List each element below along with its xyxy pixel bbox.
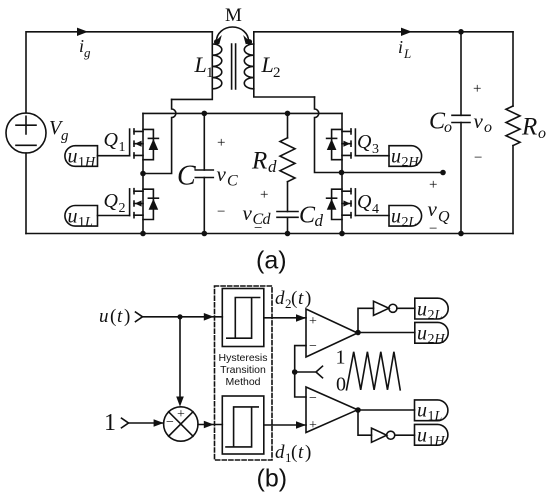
- plus sign vo: [473, 81, 481, 97]
- label Q2: [104, 190, 126, 216]
- svg-text:R: R: [251, 148, 267, 175]
- svg-text:3: 3: [372, 142, 379, 157]
- svg-text:d: d: [263, 211, 272, 228]
- wire comparator 2 output to u1L tag: [358, 409, 415, 411]
- arrow into dashed box bottom: [204, 421, 214, 429]
- svg-text:2: 2: [402, 155, 409, 170]
- svg-text:2: 2: [428, 332, 435, 347]
- label iL: [398, 37, 411, 61]
- svg-text:o: o: [538, 125, 546, 142]
- svg-text:1: 1: [78, 155, 85, 170]
- svg-text:−: −: [474, 150, 482, 166]
- wire comparator 1 inverting input: [295, 346, 306, 372]
- svg-text:H: H: [434, 434, 446, 449]
- hysteresis block 2: [222, 396, 263, 454]
- svg-text:L: L: [434, 409, 443, 424]
- svg-text:2: 2: [428, 308, 435, 323]
- svg-text:L: L: [261, 52, 274, 77]
- plus sign vCd: [260, 187, 268, 203]
- inverter NOT gate 1: [374, 301, 397, 315]
- label d2(t): [275, 288, 311, 311]
- plus sign vQ: [429, 177, 437, 193]
- wire bottom rail: [26, 233, 513, 235]
- summing junction: [164, 407, 198, 441]
- junction Cd bottom: [285, 231, 291, 237]
- label L2: [261, 52, 281, 81]
- svg-text:1: 1: [428, 409, 435, 424]
- plus sign comparator 1: [309, 314, 317, 329]
- wire top rail right (L2 top to output): [254, 31, 513, 33]
- input chevron 1: [122, 418, 129, 428]
- label 0 sawtooth: [336, 374, 346, 396]
- svg-text:o: o: [444, 119, 452, 136]
- transistor Q4: [327, 173, 356, 234]
- sawtooth pickoff fork: [295, 366, 323, 378]
- gate tag u2H: [389, 146, 422, 171]
- sawtooth waveform: [347, 352, 401, 390]
- minus sign vC: [217, 204, 225, 220]
- arrow into comparator 1: [296, 314, 306, 322]
- junction Co bottom: [458, 231, 464, 237]
- minus sign vo: [474, 150, 482, 166]
- mutual coupling arrow M: [214, 27, 251, 44]
- svg-text:u: u: [417, 323, 427, 345]
- svg-text:Hysteresis: Hysteresis: [218, 352, 267, 364]
- junction C bottom: [202, 231, 208, 237]
- wire inverter 1 to u2L tag: [397, 307, 415, 309]
- arrow into comparator 2: [296, 421, 306, 429]
- svg-text:2: 2: [119, 201, 126, 216]
- svg-text:+: +: [429, 177, 437, 193]
- svg-text:−: −: [217, 204, 225, 220]
- label Q4: [357, 191, 379, 217]
- svg-text:(: (: [291, 288, 297, 309]
- svg-text:2: 2: [402, 215, 409, 230]
- junction C top: [202, 111, 208, 117]
- wire 1 to summer: [129, 422, 164, 424]
- label vQ: [428, 197, 451, 226]
- label 1 sawtooth: [336, 347, 346, 369]
- label Q1: [104, 129, 126, 155]
- wire vQ probe: [342, 172, 444, 174]
- output tag u2H: [415, 322, 448, 347]
- node vQ probe dot: [440, 170, 446, 176]
- wire Vg- to bottom rail: [25, 153, 27, 234]
- hysteresis block 1: [222, 289, 263, 347]
- svg-text:(a): (a): [256, 247, 287, 275]
- svg-text:1: 1: [336, 347, 346, 369]
- svg-text:1: 1: [428, 434, 435, 449]
- svg-text:d: d: [268, 157, 277, 176]
- svg-text:L: L: [403, 46, 411, 61]
- wire top rail left (Vg+ to L1 top): [26, 32, 212, 113]
- plus sign vC: [217, 135, 225, 151]
- wire u1L to Q2 gate: [98, 215, 130, 217]
- dashed box hysteresis transition method: [215, 286, 273, 460]
- resistor Ro: [506, 32, 520, 234]
- junction comparator 1 output: [355, 330, 361, 336]
- svg-text:d: d: [275, 442, 285, 463]
- svg-text:Q: Q: [438, 209, 450, 226]
- svg-text:t: t: [298, 442, 304, 463]
- label Rd: [251, 148, 277, 177]
- label Co: [429, 109, 452, 137]
- svg-text:−: −: [309, 339, 317, 354]
- svg-text:g: g: [84, 45, 91, 60]
- current arrow iL: [401, 28, 412, 36]
- inverter NOT gate 2: [372, 428, 395, 442]
- svg-text:C: C: [299, 203, 316, 229]
- svg-text:(: (: [291, 442, 297, 463]
- svg-text:+: +: [177, 407, 185, 422]
- label 1 input: [104, 410, 116, 436]
- svg-text:+: +: [217, 135, 225, 151]
- junction Q2 source bottom: [140, 231, 146, 237]
- wire u(t) to hysteresis block 1: [143, 316, 222, 318]
- svg-text:−: −: [166, 415, 174, 430]
- label (a): [256, 247, 287, 275]
- svg-text:u: u: [417, 424, 427, 446]
- label d1(t): [275, 442, 311, 465]
- label Vg: [49, 117, 69, 144]
- voltage source Vg: [6, 113, 46, 153]
- output tag u1H: [415, 424, 448, 449]
- svg-text:1: 1: [78, 215, 85, 230]
- capacitor C: [195, 113, 213, 233]
- svg-text:−: −: [254, 221, 262, 237]
- wire L2 bottom to Q3/Q4 midpoint with hop: [315, 97, 342, 173]
- transistor Q1: [130, 113, 159, 173]
- svg-text:o: o: [484, 119, 492, 136]
- wire summer to hysteresis block 2: [198, 424, 222, 426]
- label (b): [257, 465, 288, 493]
- minus sign vQ: [429, 221, 437, 237]
- svg-text:C: C: [177, 161, 196, 192]
- svg-text:1: 1: [206, 65, 214, 81]
- minus sign vCd: [254, 221, 262, 237]
- junction Q1/Q2 midpoint: [140, 171, 146, 177]
- label vC: [217, 162, 239, 190]
- svg-text:C: C: [227, 173, 238, 190]
- svg-text:u: u: [417, 299, 427, 321]
- junction Co top: [458, 29, 464, 35]
- svg-text:u: u: [391, 146, 401, 168]
- current arrow ig: [77, 28, 88, 36]
- svg-text:Q: Q: [104, 129, 119, 151]
- svg-text:u: u: [68, 146, 78, 168]
- wire comparator 2 inverting input: [295, 372, 306, 397]
- svg-text:t: t: [298, 288, 304, 309]
- svg-text:Q: Q: [357, 191, 372, 213]
- junction Q4 source bottom: [339, 231, 345, 237]
- wire L1 bottom to Q1/Q2 midpoint with hop: [143, 99, 176, 173]
- minus sign comparator 2: [309, 391, 317, 406]
- label C: [177, 161, 196, 192]
- op-amp comparator 2: [306, 387, 358, 433]
- svg-text:g: g: [61, 128, 69, 144]
- svg-text:L: L: [84, 215, 93, 230]
- svg-text:−: −: [429, 221, 437, 237]
- label M: [225, 5, 242, 26]
- wire node line C/Rd top: [143, 112, 342, 114]
- capacitor Cd: [277, 212, 298, 234]
- svg-text:L: L: [434, 308, 443, 323]
- wire inverter 2 to u1H tag: [395, 434, 415, 436]
- svg-text:0: 0: [336, 374, 346, 396]
- svg-text:M: M: [225, 5, 242, 26]
- svg-text:u: u: [99, 306, 109, 327]
- capacitor Co: [452, 32, 470, 234]
- plus sign summer: [177, 407, 185, 422]
- label Q3: [357, 131, 379, 157]
- svg-text:d: d: [275, 288, 285, 309]
- svg-text:+: +: [309, 314, 317, 329]
- arrow into summer top: [176, 397, 184, 407]
- inductor L1: [172, 32, 222, 100]
- wire d1 to comparator 2: [264, 424, 306, 426]
- svg-text:Q: Q: [104, 190, 119, 212]
- wire d2 to comparator 1: [264, 317, 306, 319]
- wire comparator 2 output to inverter 2: [358, 410, 372, 435]
- svg-text:i: i: [398, 37, 403, 57]
- svg-text:v: v: [243, 201, 253, 225]
- svg-text:d: d: [315, 211, 324, 230]
- svg-text:−: −: [309, 391, 317, 406]
- arrow into dashed box top: [204, 313, 214, 321]
- svg-text:+: +: [473, 81, 481, 97]
- polarity dot L1: [214, 39, 220, 45]
- minus sign comparator 1: [309, 339, 317, 354]
- transformer core: [232, 44, 236, 89]
- label u(t): [99, 306, 130, 327]
- wire u(t) down to summer: [179, 317, 181, 397]
- svg-text:H: H: [408, 155, 420, 170]
- wire u1H to Q1 gate: [98, 155, 130, 157]
- label vo: [474, 109, 493, 136]
- arrow into summer left: [154, 419, 164, 427]
- label ig: [79, 36, 91, 60]
- transistor Q2: [130, 174, 159, 234]
- svg-text:v: v: [428, 197, 438, 221]
- svg-text:): ): [305, 442, 311, 463]
- wire Q4 gate to u2L: [355, 215, 389, 217]
- junction Q3/Q4 midpoint: [339, 170, 345, 176]
- minus sign summer: [166, 415, 174, 430]
- polarity dot L2: [247, 39, 253, 45]
- wire comparator 1 output to inverter 1: [358, 308, 374, 332]
- label Cd: [299, 203, 324, 231]
- svg-text:R: R: [521, 114, 537, 141]
- svg-text:v: v: [217, 162, 227, 186]
- svg-text:v: v: [474, 109, 484, 133]
- transistor Q3: [327, 113, 356, 172]
- plus sign comparator 2: [309, 418, 317, 433]
- text hysteresis transition method: [218, 352, 267, 388]
- svg-text:Method: Method: [225, 376, 260, 388]
- svg-text:H: H: [84, 155, 96, 170]
- svg-text:t: t: [117, 306, 123, 327]
- gate tag u1L: [65, 206, 98, 231]
- op-amp comparator 1: [306, 309, 358, 357]
- svg-text:Transition: Transition: [220, 364, 266, 376]
- junction comparator 2 output: [355, 407, 361, 413]
- svg-text:L: L: [194, 52, 207, 77]
- output tag u2L: [415, 298, 448, 323]
- svg-text:Q: Q: [357, 131, 372, 153]
- output tag u1L: [415, 400, 448, 425]
- inductor L2: [244, 32, 314, 97]
- label vCd: [243, 201, 272, 228]
- svg-text:2: 2: [273, 65, 281, 81]
- junction on u(t) wire: [177, 314, 182, 319]
- wire Q3 gate to u2H: [355, 155, 389, 157]
- svg-text:+: +: [260, 187, 268, 203]
- svg-text:): ): [305, 288, 311, 309]
- svg-text:+: +: [309, 418, 317, 433]
- svg-text:1: 1: [104, 410, 116, 436]
- input chevron u(t): [136, 312, 143, 322]
- junction sawtooth node: [292, 369, 298, 375]
- label Ro: [521, 114, 546, 143]
- svg-text:L: L: [408, 215, 417, 230]
- resistor Rd: [280, 113, 295, 211]
- label L1: [194, 52, 214, 81]
- svg-text:(: (: [110, 306, 116, 327]
- svg-text:u: u: [417, 400, 427, 422]
- svg-text:u: u: [68, 206, 78, 228]
- svg-text:H: H: [434, 332, 446, 347]
- svg-text:1: 1: [119, 140, 126, 155]
- gate tag u1H: [65, 146, 98, 171]
- wire comparator 1 output to u2H tag: [358, 332, 415, 334]
- svg-text:): ): [124, 306, 130, 327]
- gate tag u2L: [389, 206, 422, 231]
- junction Rd top: [285, 111, 291, 117]
- svg-text:u: u: [391, 206, 401, 228]
- svg-text:(b): (b): [257, 465, 288, 493]
